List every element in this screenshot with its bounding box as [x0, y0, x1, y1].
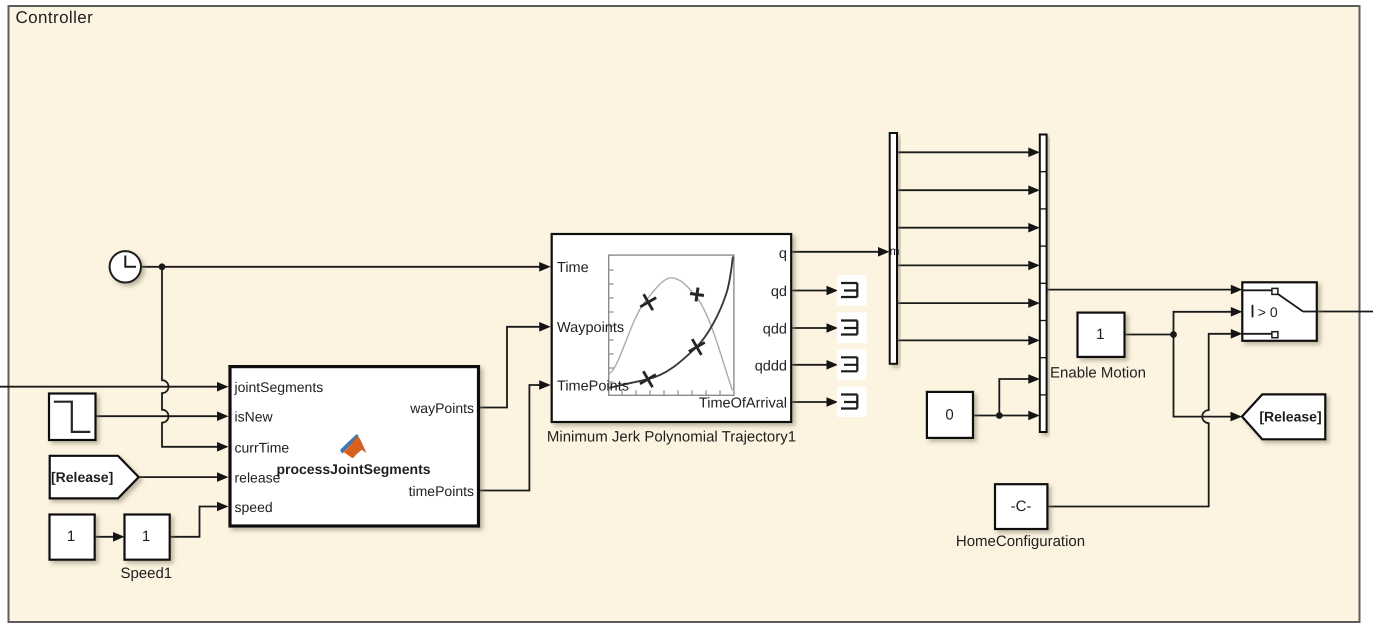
arrowhead mux in2: [1028, 185, 1040, 195]
wire: mux output to switch port1: [1047, 289, 1231, 291]
arrowhead terminator qdd: [827, 323, 839, 333]
wire: demux out 5: [897, 302, 1029, 304]
constant 1 Enable Motion: [1078, 313, 1125, 357]
wire: timePoints to TimePoints: [480, 385, 540, 491]
svg-text:processJointSegments: processJointSegments: [276, 461, 430, 477]
arrowhead mux in1: [1028, 148, 1040, 158]
wire: Speed1 to speed port: [170, 507, 218, 537]
arrowhead speed: [217, 502, 229, 512]
wire: demux out 3: [897, 227, 1029, 229]
wire: vertical from clock junction with hops to currTime: [162, 267, 218, 447]
arrowhead switch port3: [1231, 329, 1243, 339]
arrowhead Time: [539, 262, 551, 272]
arrowhead into Speed1: [113, 532, 125, 542]
wire: wayPoints to Waypoints: [480, 327, 540, 408]
marker X1: [640, 294, 656, 310]
arrowhead terminator TimeOfArrival: [827, 397, 839, 407]
terminator qd: [837, 275, 867, 306]
svg-text:qddd: qddd: [755, 358, 787, 374]
terminator TimeOfArrival: [837, 387, 867, 418]
arrowhead mux in7: [1028, 374, 1040, 384]
arrowhead jointSegments: [217, 382, 229, 392]
wire: TimeOfArrival to terminator: [792, 401, 827, 403]
Minimum Jerk Polynomial Trajectory1 block: [552, 234, 792, 422]
bell curve: [610, 278, 733, 391]
junction dot after Enable Motion: [1170, 331, 1177, 338]
svg-text:TimePoints: TimePoints: [557, 378, 629, 394]
arrowhead mux in4: [1028, 261, 1040, 271]
wire: junction down to Goto Release: [1174, 335, 1232, 417]
constant HomeConfiguration: [995, 484, 1047, 529]
sigmoid curve: [610, 257, 733, 388]
arrowhead Waypoints: [539, 322, 551, 332]
wire: demux out 1: [897, 151, 1029, 153]
svg-text:[Release]: [Release]: [51, 469, 113, 485]
wire: From Release to release port: [139, 476, 218, 478]
svg-text:wayPoints: wayPoints: [409, 400, 474, 416]
wire: qdd to terminator: [792, 327, 827, 329]
mux: [1040, 135, 1047, 433]
wire: q output to demux: [792, 251, 879, 253]
arrowhead mux in6: [1028, 336, 1040, 346]
svg-text:isNew: isNew: [235, 409, 274, 425]
wire: qd to terminator: [792, 290, 827, 292]
step block: [49, 394, 96, 441]
arrowhead switch port1: [1231, 285, 1243, 295]
wire: const1 to Speed1: [95, 536, 115, 538]
wire: zero const branch to mux port7: [999, 379, 1029, 416]
constant 0: [927, 392, 973, 438]
demux: [890, 133, 897, 364]
wire: HomeConfiguration up to switch port3 with hop: [1047, 334, 1231, 507]
arrowhead demux input: [878, 247, 890, 257]
terminator qddd: [837, 349, 867, 380]
trajectory port labels: [557, 246, 787, 412]
wire: step to isNew: [96, 415, 219, 417]
svg-text:0: 0: [945, 406, 953, 423]
wire: demux out 2: [897, 189, 1029, 191]
MATLAB function port labels: [234, 379, 475, 515]
arrowhead terminator qddd: [827, 360, 839, 370]
switch block: [1242, 282, 1317, 341]
svg-text:Enable Motion: Enable Motion: [1050, 365, 1146, 382]
mux segment separators: [1040, 172, 1047, 395]
svg-text:[Release]: [Release]: [1259, 409, 1321, 425]
svg-text:TimeOfArrival: TimeOfArrival: [699, 395, 787, 411]
arrowhead mux in5: [1028, 298, 1040, 308]
svg-text:q: q: [779, 246, 787, 262]
Goto tag [Release]: [1242, 394, 1325, 439]
constant 1: [50, 515, 95, 560]
svg-text:Waypoints: Waypoints: [557, 320, 624, 336]
marker X3: [640, 371, 656, 387]
arrowhead mux in3: [1028, 223, 1040, 233]
wire: junction up to switch port2: [1174, 312, 1232, 335]
svg-text:1: 1: [142, 528, 150, 545]
arrowhead switch port2: [1231, 307, 1243, 317]
wire: qddd to terminator: [792, 364, 827, 366]
arrowhead currTime: [217, 442, 229, 452]
arrowhead TimePoints: [539, 380, 551, 390]
svg-text:Minimum Jerk Polynomial Trajec: Minimum Jerk Polynomial Trajectory1: [547, 429, 796, 446]
arrowhead Goto Release: [1231, 412, 1243, 422]
wire: clock to Time port: [141, 266, 540, 268]
svg-text:1: 1: [1096, 326, 1104, 343]
arrowhead mux in8: [1028, 411, 1040, 421]
svg-text:release: release: [235, 470, 281, 486]
arrowhead release: [217, 472, 229, 482]
wire: zero const to mux port8: [973, 415, 1029, 417]
wire: left edge into jointSegments: [0, 386, 218, 388]
trajectory graph axes: [609, 255, 734, 395]
svg-text:jointSegments: jointSegments: [234, 379, 324, 395]
junction dot after zero const: [996, 412, 1003, 419]
svg-text:qdd: qdd: [763, 321, 787, 337]
From tag [Release]: [50, 456, 139, 499]
constant Speed1: [125, 515, 170, 560]
terminator qdd: [837, 313, 867, 344]
svg-text:qd: qd: [771, 284, 787, 300]
svg-text:currTime: currTime: [235, 439, 290, 455]
svg-text:timePoints: timePoints: [409, 483, 474, 499]
clock block: [110, 251, 141, 282]
svg-text:1: 1: [67, 528, 75, 545]
arrowhead isNew: [217, 411, 229, 421]
wire: switch output to right edge: [1317, 311, 1373, 313]
svg-text:speed: speed: [235, 499, 273, 515]
svg-text:HomeConfiguration: HomeConfiguration: [956, 533, 1085, 550]
wire: demux out 6: [897, 339, 1029, 341]
MATLAB logo: [340, 434, 366, 458]
marker plus: [689, 287, 705, 303]
arrowhead terminator qd: [827, 286, 839, 296]
svg-text:Controller: Controller: [16, 8, 94, 27]
MATLAB function block processJointSegments: [230, 367, 479, 526]
junction dot at clock: [159, 263, 166, 270]
svg-text:Time: Time: [557, 260, 589, 276]
svg-text:> 0: > 0: [1258, 304, 1278, 320]
svg-text:-C-: -C-: [1011, 498, 1032, 515]
marker X2: [689, 339, 705, 355]
svg-text:Speed1: Speed1: [120, 565, 172, 582]
svg-text:m: m: [890, 244, 900, 258]
wire: Enable Motion const to junction: [1125, 334, 1174, 336]
wire: demux out 4: [897, 264, 1029, 266]
